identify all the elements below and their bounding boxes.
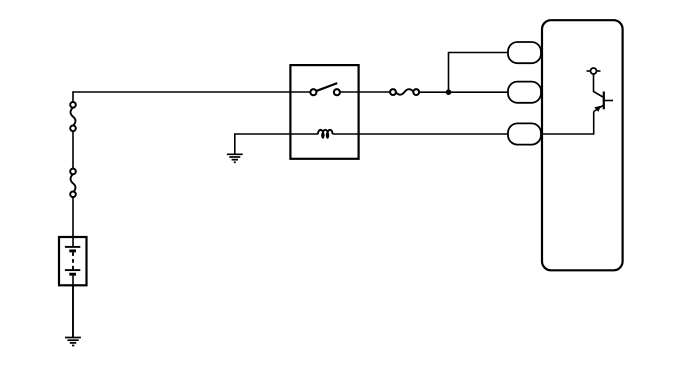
relay switch contact (open) (310, 83, 340, 95)
wire: pill terminal 3 to transistor emitter (540, 112, 594, 135)
inline connector (upper, on left feed wire) (70, 102, 76, 131)
inline connector (on switched feed wire) (390, 89, 419, 95)
wire: relay coil to pill terminal 3 (333, 133, 511, 135)
relay coil (318, 130, 333, 139)
wire: main feed, left corner to relay switch (73, 91, 313, 93)
node: junction dot (446, 89, 452, 95)
pill terminal 3 (508, 123, 541, 144)
wire: junction riser to pill terminal 1 (449, 53, 511, 93)
wire: relay coil ground stub (235, 134, 318, 154)
pill terminal 1 (508, 42, 541, 63)
wire: battery feed riser, top corner down to first inline connector (72, 91, 74, 105)
ground (relay coil) (227, 154, 243, 162)
wire: inline connector through junction to pill terminal 2 (417, 91, 511, 93)
wire: relay switch to inline connector (339, 91, 393, 93)
ground (battery) (65, 338, 81, 346)
wire: battery negative to ground (72, 285, 74, 337)
relay box (290, 65, 358, 159)
wire: between the two left inline connectors (72, 128, 74, 171)
pill terminal 2 (508, 82, 541, 103)
transistor (PNP, in module) (587, 68, 614, 112)
battery (59, 237, 87, 285)
inline connector (lower, on left feed wire) (70, 169, 76, 198)
wire: lower inline connector to battery (72, 194, 74, 237)
module box (ECU) (542, 20, 623, 270)
